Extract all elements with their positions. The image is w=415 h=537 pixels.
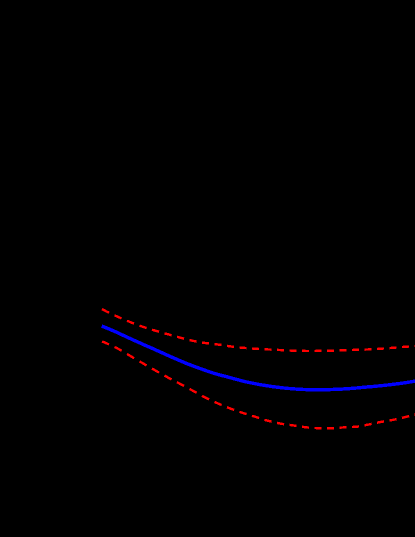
fitted spline curve (blue solid)	[102, 326, 415, 390]
lower confidence band (red dashed)	[102, 341, 415, 428]
upper confidence band (red dashed)	[102, 309, 415, 351]
